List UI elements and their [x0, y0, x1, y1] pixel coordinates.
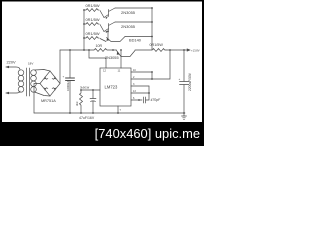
svg-text:3k9/1W: 3k9/1W — [80, 86, 90, 90]
transistor Q4 2N3055 — [117, 51, 136, 57]
svg-text:47uF/16V: 47uF/16V — [79, 116, 95, 120]
svg-text:0R1/5W: 0R1/5W — [86, 17, 100, 22]
wire collector riser — [151, 8, 153, 50]
wire Q1 collector — [115, 7, 152, 9]
wire bridge plus riser — [59, 50, 61, 84]
svg-text:+: + — [63, 75, 65, 79]
frame border — [0, 0, 204, 146]
wire to Q4 — [113, 49, 117, 51]
svg-text:3k3: 3k3 — [75, 101, 79, 106]
svg-text:220V: 220V — [7, 60, 16, 65]
resistor R4 10R on main line — [94, 49, 113, 52]
svg-text:LM723: LM723 — [105, 85, 118, 90]
wire AC line bottom — [6, 91, 20, 93]
svg-text:0R1/5W: 0R1/5W — [150, 43, 164, 47]
svg-text:+: + — [179, 77, 181, 81]
svg-text:+13.8V: +13.8V — [191, 49, 200, 53]
svg-text:2N3055: 2N3055 — [105, 55, 119, 60]
wire R2 to Q2 emitter — [100, 25, 104, 32]
svg-text:0R1/5W: 0R1/5W — [86, 3, 100, 8]
capacitor C1 filter leg — [69, 50, 71, 113]
svg-text:BD140: BD140 — [129, 38, 142, 43]
wire R1 to Q1 emitter — [100, 11, 104, 18]
wire pin7 stub to rail — [117, 106, 119, 113]
transformer T1 primary — [18, 70, 24, 76]
svg-text:18V: 18V — [28, 62, 33, 66]
capacitor C4 2200uF/50V — [180, 50, 189, 113]
svg-text:MR751A: MR751A — [41, 99, 56, 103]
junction dots — [69, 7, 185, 114]
transistor Q2 2N3055 — [104, 22, 115, 32]
wire bottom rail — [34, 112, 185, 114]
wire pin12 stub jog — [89, 50, 106, 68]
node AC plug arrows — [5, 66, 9, 94]
wire Q3 base riser — [107, 32, 109, 41]
wire Q4 to riser — [135, 49, 152, 51]
capacitor C3 470pF — [139, 93, 149, 103]
capacitor C1 plates — [66, 78, 75, 81]
wire Q3 collector — [125, 36, 152, 38]
resistor R3 0R1/5W — [84, 37, 99, 40]
wire secondary bottom to bridge — [35, 92, 51, 96]
svg-text:10R: 10R — [96, 44, 103, 48]
resistor R6 vertical — [80, 90, 83, 113]
wire pin11 stub — [120, 50, 122, 68]
emitter bus — [83, 10, 85, 50]
wire pin left stub — [81, 89, 100, 91]
svg-text:[740x460] upic.me: [740x460] upic.me — [95, 126, 200, 141]
svg-text:0R1/5W: 0R1/5W — [86, 31, 100, 36]
ground — [182, 113, 187, 119]
svg-text:2N3055: 2N3055 — [121, 24, 136, 29]
svg-text:2200uF/50V: 2200uF/50V — [188, 72, 192, 91]
svg-text:2N3055: 2N3055 — [121, 10, 136, 15]
resistor R5 0R1/5W output — [152, 49, 166, 52]
wire right pin stubs — [131, 72, 152, 100]
bridge rectifier D1-D4 — [40, 71, 60, 96]
transistor Q1 2N3055 — [104, 8, 115, 18]
resistor R2 0R1/5W — [84, 23, 99, 26]
capacitor C2 47uF — [90, 90, 96, 113]
resistor R1 0R1/5W — [84, 9, 99, 12]
transformer T1 secondary — [31, 70, 37, 76]
IC U1 LM723 body — [100, 68, 131, 106]
transistor Q3 — [107, 37, 126, 42]
wire bridge minus to rail — [34, 84, 40, 114]
wire Q2 collector — [115, 21, 152, 23]
svg-text:10000uF: 10000uF — [66, 80, 70, 91]
wire main line y50 — [60, 49, 94, 51]
svg-text:470pF: 470pF — [151, 98, 162, 102]
node output arrow — [187, 48, 191, 51]
wire AC line top — [6, 67, 20, 70]
wire R3 to Q3 emitter — [100, 39, 106, 42]
wire secondary top to bridge — [35, 70, 51, 72]
wire sense vertical — [149, 50, 170, 93]
svg-text:12: 12 — [103, 69, 106, 73]
transformer T1 core — [27, 68, 30, 96]
wire output line — [166, 49, 188, 51]
